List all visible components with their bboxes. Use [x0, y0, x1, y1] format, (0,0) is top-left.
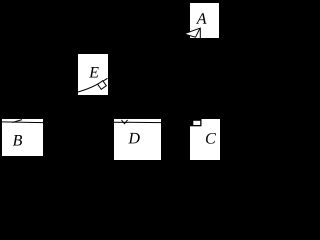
label E: [89, 67, 99, 77]
label D: [128, 133, 139, 144]
node E box: [78, 54, 108, 95]
node C box: [190, 119, 220, 160]
node D box: [114, 119, 161, 160]
wire edge through B: [2, 121, 43, 124]
box arrowhead marker on edge in E: [98, 81, 107, 90]
open arrowhead barb in B: [13, 120, 23, 123]
wire edge through E: [78, 78, 108, 92]
label C: [206, 133, 216, 144]
node B box: [2, 119, 43, 156]
box arrowhead marker at C corner: [190, 119, 202, 126]
wire edge into A with empty arrowhead: [184, 28, 200, 37]
label B: [13, 135, 22, 146]
wire edge through D: [114, 121, 161, 123]
node A box: [190, 3, 219, 38]
vee arrowhead in D: [121, 120, 127, 124]
label A: [196, 13, 207, 24]
wire vertical edge segment in A: [199, 28, 201, 38]
